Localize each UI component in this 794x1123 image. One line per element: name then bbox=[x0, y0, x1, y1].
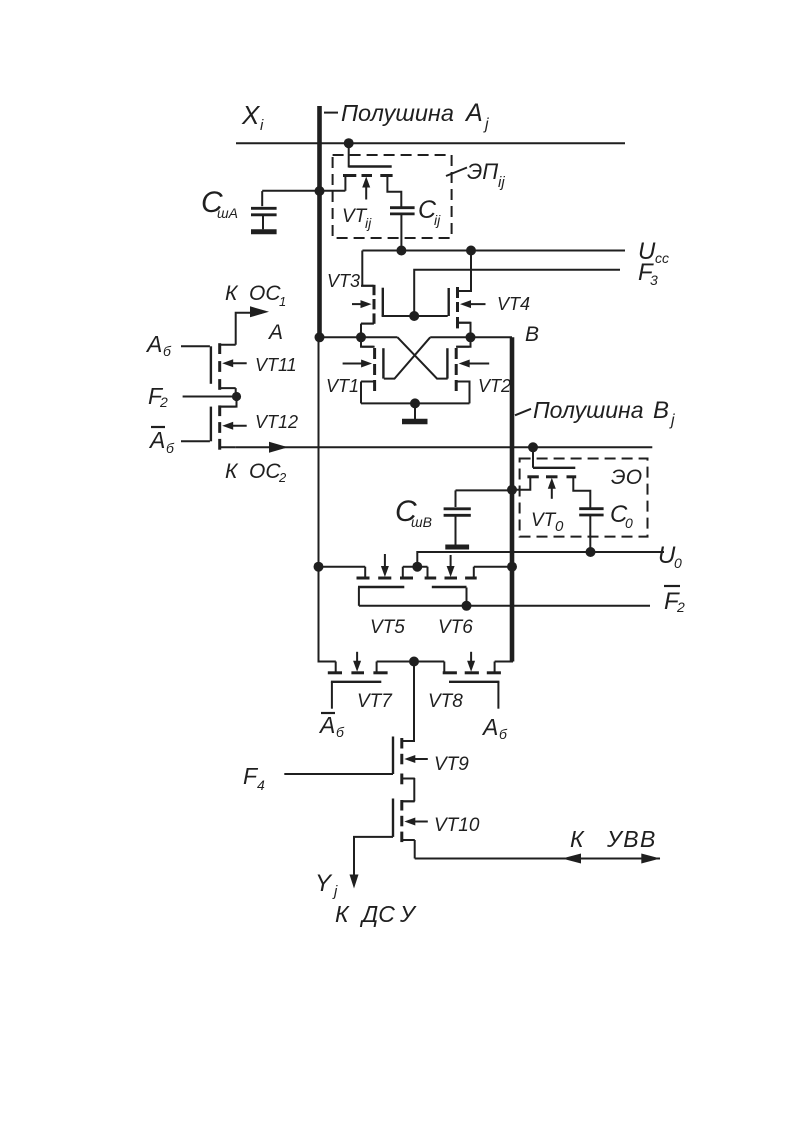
dashed box ЭП_ij bbox=[333, 155, 452, 238]
wire F_3 to VT3/VT4 gates bbox=[382, 315, 448, 317]
junction dot F_2 / VT11-VT12 bbox=[232, 392, 241, 401]
svg-text:2: 2 bbox=[676, 599, 685, 615]
callout ЭП_ij bbox=[446, 168, 467, 177]
junction dot VT7/VT8 center bbox=[409, 657, 419, 667]
svg-text:i: i bbox=[260, 117, 264, 134]
svg-text:ij: ij bbox=[365, 215, 372, 231]
junction dot row / column A bbox=[314, 562, 324, 572]
svg-text:VT4: VT4 bbox=[497, 294, 530, 314]
svg-text:VT: VT bbox=[531, 510, 557, 531]
label X_i bbox=[241, 100, 264, 134]
transistor VT8 bbox=[443, 652, 501, 709]
junction dot node B / VT2-VT4 bbox=[466, 332, 476, 342]
label VT_ij bbox=[342, 206, 372, 231]
svg-text:1: 1 bbox=[279, 294, 286, 309]
label VT_0 bbox=[531, 510, 564, 535]
bus Полушина A_j (thick vertical) bbox=[317, 106, 322, 338]
capacitor C_ij bbox=[390, 208, 415, 251]
dashed box ЭО bbox=[520, 459, 648, 537]
transistor VT_ij bbox=[343, 143, 401, 207]
svg-text:б: б bbox=[166, 440, 175, 456]
transistor VT3 bbox=[352, 251, 383, 338]
junction dot common source bbox=[410, 398, 420, 408]
junction dot VT_0 gate / К ОС2 bbox=[528, 442, 538, 452]
label Полушина A_j bbox=[341, 99, 489, 133]
svg-text:У: У bbox=[399, 901, 417, 927]
svg-text:б: б bbox=[336, 724, 345, 740]
label A_6 (VT8 gate) bbox=[481, 714, 508, 742]
svg-text:ОС: ОС bbox=[249, 282, 281, 305]
svg-text:0: 0 bbox=[555, 518, 564, 535]
junction dot node A / VT1-VT3 bbox=[356, 332, 366, 342]
node A wire bbox=[320, 336, 398, 338]
wire Ā_6 input bbox=[181, 440, 210, 442]
label U_cc bbox=[638, 238, 669, 266]
svg-text:2: 2 bbox=[159, 394, 168, 410]
svg-text:VT12: VT12 bbox=[255, 412, 298, 432]
callout Полушина B_j bbox=[515, 409, 531, 416]
transistor VT6 bbox=[425, 555, 477, 606]
wire X_i row line bbox=[236, 142, 625, 144]
svg-text:А: А bbox=[145, 331, 162, 357]
svg-text:К: К bbox=[570, 826, 585, 852]
svg-text:VT2: VT2 bbox=[478, 376, 511, 396]
svg-text:3: 3 bbox=[650, 272, 658, 288]
label Ā_6 (VT7 gate) bbox=[318, 712, 345, 740]
svg-text:X: X bbox=[241, 100, 261, 130]
junction dot row / U_0 bbox=[412, 562, 422, 572]
svg-text:В: В bbox=[653, 397, 669, 424]
svg-text:ДС: ДС bbox=[359, 901, 395, 927]
capacitor C_шB bbox=[444, 490, 471, 547]
arrowhead Y_j bbox=[350, 875, 359, 889]
wire F̄_2 rail bbox=[359, 605, 650, 607]
node B wire bbox=[430, 336, 512, 338]
svg-text:j: j bbox=[332, 883, 338, 900]
wire U_cc rail bbox=[362, 250, 625, 252]
label К УВВ bbox=[570, 826, 657, 852]
wire VT5/VT6 row bbox=[319, 566, 513, 568]
junction dot F_3 gate line bbox=[409, 311, 419, 321]
label F_3 bbox=[638, 259, 658, 288]
svg-text:А: А bbox=[464, 99, 483, 127]
junction dot VT6 gate / F̄_2 bbox=[462, 601, 472, 611]
label A_6 bbox=[145, 331, 172, 359]
transistor VT9 bbox=[393, 737, 428, 802]
ground bbox=[402, 403, 428, 421]
wire C_шA to bus A and VT_ij source bbox=[262, 190, 345, 192]
bus Полушина B_j (thick vertical) bbox=[510, 337, 515, 661]
svg-text:А: А bbox=[481, 714, 498, 740]
svg-text:0: 0 bbox=[674, 555, 682, 571]
junction dot row / bus B bbox=[507, 562, 517, 572]
svg-text:4: 4 bbox=[257, 777, 265, 793]
transistor VT10 bbox=[393, 799, 428, 859]
wire U_0 rail bbox=[417, 552, 664, 567]
label C_шB bbox=[395, 495, 432, 530]
wire center column to VT9 bbox=[403, 662, 414, 742]
svg-text:ЭП: ЭП bbox=[467, 159, 498, 184]
svg-text:VT1: VT1 bbox=[326, 376, 359, 396]
transistor VT11 bbox=[211, 313, 262, 397]
svg-text:А: А bbox=[148, 427, 165, 453]
wire VT7/VT8 row bbox=[319, 661, 514, 663]
wire F_2 input bbox=[183, 396, 237, 398]
svg-text:VT11: VT11 bbox=[255, 355, 297, 375]
label К ОС2 bbox=[225, 460, 287, 485]
callout Полушина A_j bbox=[324, 112, 338, 114]
svg-text:VT7: VT7 bbox=[357, 691, 393, 712]
label U_0 bbox=[658, 542, 682, 571]
svg-text:VT5: VT5 bbox=[370, 617, 405, 638]
svg-text:VT9: VT9 bbox=[434, 754, 469, 775]
svg-text:шА: шА bbox=[217, 205, 238, 221]
svg-text:j: j bbox=[483, 116, 489, 133]
svg-text:cc: cc bbox=[655, 250, 669, 266]
transistor VT4 bbox=[449, 251, 486, 338]
transistor VT2 bbox=[447, 337, 489, 403]
label Y_j bbox=[315, 870, 338, 900]
junction dot C_0 / U_0 bbox=[586, 547, 596, 557]
wire C_шB to bus B bbox=[456, 489, 513, 491]
label C_шA bbox=[201, 186, 238, 221]
svg-text:2: 2 bbox=[278, 470, 287, 485]
svg-text:К: К bbox=[225, 282, 239, 305]
svg-text:Y: Y bbox=[315, 870, 333, 897]
label ЭП_ij bbox=[467, 159, 505, 191]
junction dot bus B / VT_0 source bbox=[507, 485, 517, 495]
arrowhead К ОС1 bbox=[250, 306, 269, 317]
wire К УВВ bbox=[415, 858, 660, 860]
wire F_3 rail bbox=[414, 270, 620, 316]
wire К ОС2 row bbox=[236, 446, 653, 448]
svg-text:VT: VT bbox=[342, 206, 368, 227]
label F_2 bbox=[148, 383, 168, 410]
wire column A lower (node A down to VT7 row) bbox=[319, 338, 336, 662]
transistor VT_0 bbox=[512, 447, 590, 508]
junction dot bus A / C_шA bbox=[315, 186, 325, 196]
svg-text:VT10: VT10 bbox=[434, 815, 480, 836]
junction dot C_ij / U_cc wire bbox=[396, 246, 406, 256]
arrowhead К УВВ right bbox=[641, 854, 660, 864]
svg-text:ij: ij bbox=[498, 174, 505, 191]
svg-text:Полушина: Полушина bbox=[533, 397, 644, 423]
label C_0 bbox=[610, 501, 633, 531]
svg-text:VT8: VT8 bbox=[428, 691, 463, 712]
svg-text:j: j bbox=[669, 412, 675, 429]
arrowhead К ОС2 bbox=[269, 442, 288, 453]
svg-text:ij: ij bbox=[434, 212, 441, 228]
wire latch common source bbox=[361, 402, 470, 404]
label F_4 bbox=[243, 763, 265, 793]
svg-text:А: А bbox=[267, 321, 283, 344]
transistor VT5 bbox=[357, 554, 414, 606]
wire VT10 gate to Y_j bbox=[354, 837, 393, 879]
capacitor C_шA bbox=[251, 191, 277, 232]
svg-text:Полушина: Полушина bbox=[341, 100, 454, 126]
junction dot VT_ij gate / X_i bbox=[344, 138, 354, 148]
label К ДС У bbox=[335, 901, 417, 927]
wire F_4 input bbox=[284, 773, 393, 775]
wire cross-coupling node B to VT1 gate bbox=[384, 337, 430, 378]
svg-text:VT3: VT3 bbox=[327, 271, 360, 291]
svg-text:0: 0 bbox=[625, 515, 633, 531]
transistor VT1 bbox=[343, 337, 384, 403]
svg-text:VT6: VT6 bbox=[438, 617, 473, 638]
svg-text:шВ: шВ bbox=[411, 514, 432, 530]
svg-text:А: А bbox=[318, 712, 335, 738]
junction dot node A on bus bbox=[315, 332, 325, 342]
svg-text:б: б bbox=[499, 726, 508, 742]
svg-text:В: В bbox=[525, 323, 539, 346]
label C_ij bbox=[418, 196, 441, 228]
svg-text:К: К bbox=[225, 460, 239, 483]
transistor VT12 bbox=[211, 397, 247, 450]
label Полушина B_j bbox=[533, 397, 675, 429]
svg-text:К: К bbox=[335, 901, 350, 927]
svg-text:ЭО: ЭО bbox=[611, 466, 642, 489]
wire cross-coupling node A to VT2 gate bbox=[398, 337, 448, 378]
wire A_6 input bbox=[181, 345, 210, 347]
svg-text:ОС: ОС bbox=[249, 460, 281, 483]
label F̄_2 bbox=[664, 586, 685, 615]
svg-text:УВВ: УВВ bbox=[606, 826, 657, 852]
arrowhead К УВВ left bbox=[562, 854, 581, 864]
svg-text:б: б bbox=[163, 343, 172, 359]
capacitor C_0 bbox=[579, 509, 603, 552]
transistor VT7 bbox=[328, 652, 388, 709]
label К ОС1 bbox=[225, 282, 286, 309]
label Ā_6 bbox=[148, 427, 175, 456]
junction dot VT4 drain / U_cc bbox=[466, 246, 476, 256]
